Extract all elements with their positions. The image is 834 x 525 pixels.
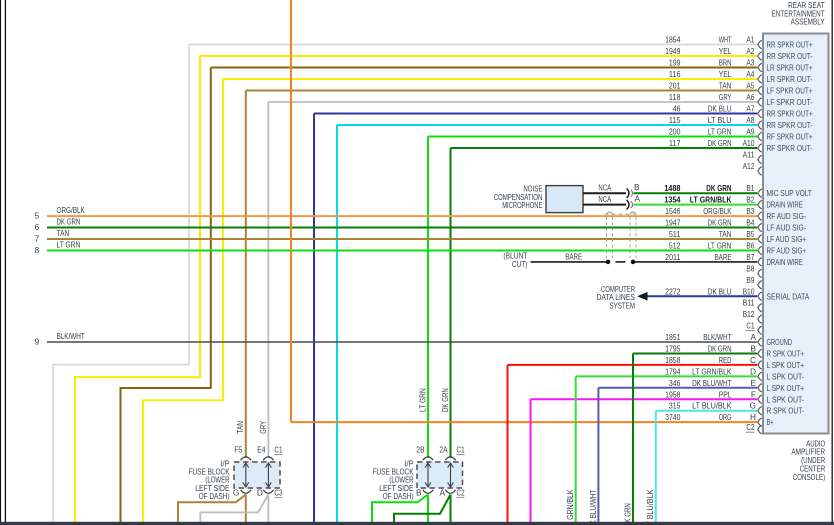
svg-text:L SPK OUT-: L SPK OUT- <box>767 394 805 404</box>
svg-text:ORG/BLK: ORG/BLK <box>57 205 86 215</box>
svg-text:RF AUD SIG-: RF AUD SIG- <box>767 211 807 221</box>
svg-text:B2: B2 <box>746 195 754 205</box>
svg-text:F: F <box>751 389 756 399</box>
svg-text:1851: 1851 <box>665 332 681 342</box>
svg-text:D: D <box>750 366 756 376</box>
svg-text:RR SPKR OUT-: RR SPKR OUT- <box>767 51 813 61</box>
svg-text:R SPK OUT+: R SPK OUT+ <box>767 348 805 358</box>
svg-text:A12: A12 <box>743 161 755 171</box>
svg-text:DK BLU: DK BLU <box>708 286 732 296</box>
svg-text:C2: C2 <box>457 487 465 497</box>
svg-text:118: 118 <box>669 92 681 102</box>
svg-text:ORG: ORG <box>719 412 732 422</box>
svg-text:DK GRN: DK GRN <box>708 343 732 353</box>
svg-text:L SPK OUT+: L SPK OUT+ <box>767 360 805 370</box>
svg-text:A: A <box>750 332 756 342</box>
svg-text:1858: 1858 <box>665 355 681 365</box>
svg-text:LT GRN: LT GRN <box>57 239 81 249</box>
svg-text:B+: B+ <box>767 417 774 427</box>
svg-text:B: B <box>416 487 422 497</box>
svg-text:LF AUD SIG+: LF AUD SIG+ <box>767 234 807 244</box>
svg-text:NCA: NCA <box>598 194 611 204</box>
svg-text:B12: B12 <box>743 309 755 319</box>
svg-text:3740: 3740 <box>665 412 681 422</box>
svg-text:NCA: NCA <box>598 183 611 193</box>
svg-text:A9: A9 <box>746 127 754 137</box>
svg-text:1854: 1854 <box>665 35 681 45</box>
svg-text:TAN: TAN <box>719 81 732 91</box>
svg-text:LT GRN: LT GRN <box>708 240 732 250</box>
svg-text:CONSOLE): CONSOLE) <box>793 472 826 482</box>
svg-text:A3: A3 <box>746 58 754 68</box>
svg-text:117: 117 <box>669 138 681 148</box>
svg-text:RR SPKR OUT-: RR SPKR OUT- <box>767 120 813 130</box>
svg-text:C1: C1 <box>746 321 754 331</box>
svg-text:BLK/WHT: BLK/WHT <box>57 331 85 341</box>
svg-text:GRY: GRY <box>719 92 732 102</box>
svg-text:115: 115 <box>669 115 681 125</box>
svg-text:200: 200 <box>669 127 681 137</box>
svg-text:C2: C2 <box>746 422 754 432</box>
svg-text:5: 5 <box>35 211 40 221</box>
svg-text:1488: 1488 <box>664 183 681 193</box>
svg-text:2A: 2A <box>439 445 447 455</box>
svg-text:1354: 1354 <box>664 195 681 205</box>
svg-text:TAN: TAN <box>719 229 732 239</box>
svg-text:R SPK OUT-: R SPK OUT- <box>767 406 805 416</box>
svg-text:7: 7 <box>35 234 40 244</box>
svg-text:C1: C1 <box>274 445 282 455</box>
svg-text:ASSEMBLY: ASSEMBLY <box>791 17 825 27</box>
svg-text:RF SPKR OUT-: RF SPKR OUT- <box>767 143 813 153</box>
svg-text:YEL: YEL <box>719 69 732 79</box>
svg-text:DRAIN WIRE: DRAIN WIRE <box>767 257 804 267</box>
svg-text:B4: B4 <box>746 218 754 228</box>
svg-text:E: E <box>750 378 756 388</box>
svg-text:DK BLU/WHT: DK BLU/WHT <box>588 490 598 525</box>
svg-text:C3: C3 <box>274 487 282 497</box>
svg-text:DK GRN: DK GRN <box>708 138 732 148</box>
svg-text:LT GRN/BLK: LT GRN/BLK <box>690 195 732 205</box>
svg-text:B8: B8 <box>746 263 754 273</box>
svg-text:B: B <box>750 343 756 353</box>
svg-text:SYSTEM: SYSTEM <box>610 300 636 310</box>
svg-text:B: B <box>634 182 640 192</box>
svg-text:199: 199 <box>669 58 681 68</box>
svg-text:LT GRN/BLK: LT GRN/BLK <box>692 366 732 376</box>
svg-text:RR SPKR OUT+: RR SPKR OUT+ <box>767 40 813 50</box>
svg-text:L SPK OUT+: L SPK OUT+ <box>767 383 805 393</box>
svg-text:A6: A6 <box>746 92 754 102</box>
svg-text:A: A <box>439 487 445 497</box>
svg-text:A5: A5 <box>746 81 754 91</box>
svg-text:LF SPKR OUT-: LF SPKR OUT- <box>767 97 813 107</box>
svg-text:LT BLU/BLK: LT BLU/BLK <box>692 401 732 411</box>
svg-text:WHT: WHT <box>719 35 732 45</box>
svg-text:CUT): CUT) <box>512 259 528 269</box>
svg-text:SERIAL DATA: SERIAL DATA <box>767 291 810 301</box>
svg-text:LR SPKR OUT-: LR SPKR OUT- <box>767 74 813 84</box>
svg-text:D: D <box>257 487 263 497</box>
svg-text:DK GRN: DK GRN <box>440 388 450 412</box>
svg-text:E4: E4 <box>257 445 265 455</box>
svg-text:LR SPKR OUT+: LR SPKR OUT+ <box>767 63 813 73</box>
svg-text:DK GRN: DK GRN <box>706 183 731 193</box>
svg-text:6: 6 <box>35 222 40 232</box>
svg-text:BRN: BRN <box>719 58 732 68</box>
svg-text:GRY: GRY <box>258 421 268 434</box>
svg-text:BARE: BARE <box>565 252 582 262</box>
svg-text:DK BLU/WHT: DK BLU/WHT <box>692 378 731 388</box>
svg-text:DK GRN: DK GRN <box>622 503 632 525</box>
svg-text:B11: B11 <box>743 298 755 308</box>
svg-text:LT BLU/BLK: LT BLU/BLK <box>645 489 655 525</box>
svg-text:A7: A7 <box>746 104 754 114</box>
svg-text:LT BLU: LT BLU <box>708 115 732 125</box>
svg-text:PPL: PPL <box>719 389 732 399</box>
svg-text:BLK/WHT: BLK/WHT <box>703 332 731 342</box>
svg-text:B3: B3 <box>746 206 754 216</box>
svg-text:A2: A2 <box>746 46 754 56</box>
svg-text:RF AUD SIG+: RF AUD SIG+ <box>767 245 807 255</box>
svg-text:1795: 1795 <box>665 343 681 353</box>
svg-text:LF AUD SIG-: LF AUD SIG- <box>767 223 807 233</box>
svg-text:A4: A4 <box>746 69 754 79</box>
svg-text:RED: RED <box>719 355 732 365</box>
svg-text:ORG/BLK: ORG/BLK <box>703 206 732 216</box>
svg-text:F5: F5 <box>234 445 242 455</box>
svg-text:A8: A8 <box>746 115 754 125</box>
svg-text:DRAIN WIRE: DRAIN WIRE <box>767 200 804 210</box>
svg-text:TAN: TAN <box>235 421 245 434</box>
svg-text:DK GRN: DK GRN <box>708 218 732 228</box>
svg-text:MIC SUP VOLT: MIC SUP VOLT <box>767 188 812 198</box>
svg-text:OF DASH): OF DASH) <box>199 491 230 501</box>
svg-text:LT GRN/BLK: LT GRN/BLK <box>565 489 575 525</box>
svg-text:B6: B6 <box>746 240 754 250</box>
svg-text:LT GRN: LT GRN <box>417 388 427 412</box>
svg-text:8: 8 <box>35 245 40 255</box>
svg-text:201: 201 <box>669 81 681 91</box>
svg-text:B7: B7 <box>746 252 754 262</box>
svg-text:H: H <box>750 412 756 422</box>
svg-text:MICROPHONE: MICROPHONE <box>502 200 543 210</box>
svg-text:315: 315 <box>669 401 681 411</box>
svg-text:116: 116 <box>669 69 681 79</box>
svg-text:A11: A11 <box>743 150 755 160</box>
svg-text:RF SPKR OUT+: RF SPKR OUT+ <box>767 132 813 142</box>
svg-text:C: C <box>750 355 756 365</box>
svg-text:1958: 1958 <box>665 389 681 399</box>
svg-text:YEL: YEL <box>719 46 732 56</box>
svg-text:C1: C1 <box>457 445 465 455</box>
svg-text:DK BLU: DK BLU <box>708 104 732 114</box>
svg-text:DK GRN: DK GRN <box>57 217 81 227</box>
svg-text:LF SPKR OUT+: LF SPKR OUT+ <box>767 86 813 96</box>
svg-text:B1: B1 <box>746 183 754 193</box>
svg-text:1947: 1947 <box>665 218 681 228</box>
svg-text:1546: 1546 <box>665 206 681 216</box>
svg-text:A10: A10 <box>743 138 755 148</box>
svg-text:511: 511 <box>669 229 681 239</box>
svg-text:2011: 2011 <box>665 252 681 262</box>
svg-text:G: G <box>750 401 756 411</box>
svg-text:LT GRN: LT GRN <box>708 127 732 137</box>
svg-text:RR SPKR OUT+: RR SPKR OUT+ <box>767 109 813 119</box>
svg-text:1949: 1949 <box>665 46 681 56</box>
svg-text:TAN: TAN <box>57 228 70 238</box>
svg-text:346: 346 <box>669 378 681 388</box>
svg-text:L SPK OUT-: L SPK OUT- <box>767 371 805 381</box>
svg-text:B9: B9 <box>746 275 754 285</box>
svg-text:B5: B5 <box>746 229 754 239</box>
svg-text:9: 9 <box>35 337 40 347</box>
svg-text:2272: 2272 <box>665 286 681 296</box>
svg-text:OF DASH): OF DASH) <box>383 491 414 501</box>
svg-text:512: 512 <box>669 240 681 250</box>
svg-text:BARE: BARE <box>715 252 732 262</box>
svg-text:GROUND: GROUND <box>767 337 793 347</box>
svg-text:A1: A1 <box>746 35 754 45</box>
svg-text:1794: 1794 <box>665 366 681 376</box>
svg-text:2B: 2B <box>416 445 424 455</box>
svg-text:A: A <box>634 194 640 204</box>
svg-text:B10: B10 <box>743 286 755 296</box>
svg-text:46: 46 <box>673 104 681 114</box>
svg-text:G: G <box>233 487 239 497</box>
